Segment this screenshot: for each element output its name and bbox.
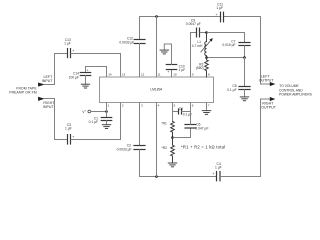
- junction: R1 R2 C6 node: [171, 136, 174, 139]
- wire: left output from top bus: [261, 17, 271, 85]
- wire: C1 to ground: [106, 121, 108, 125]
- svg-text:0.047 µF: 0.047 µF: [195, 126, 208, 130]
- input arrow: left input: [38, 83, 54, 87]
- svg-text:LM1894: LM1894: [150, 87, 162, 91]
- label LEFT INPUT: [42, 75, 54, 83]
- label LEFT OUTPUT: [259, 75, 275, 83]
- wire: C2 to bottom bus: [139, 150, 141, 177]
- svg-text:6: 6: [192, 104, 194, 108]
- variable arrow across L1: [201, 38, 213, 52]
- wire: node A over to C7: [207, 33, 245, 42]
- capacitor C9 0.0047uF: [186, 18, 201, 37]
- wire: node B bus: [207, 57, 245, 59]
- junction: V+ at pin 1: [105, 110, 108, 113]
- terminal V+: [82, 110, 106, 114]
- wire: C10 up and over to ground: [164, 44, 171, 64]
- svg-text:1 µF: 1 µF: [64, 42, 71, 46]
- junction: pin 4 on bottom bus: [155, 175, 158, 178]
- svg-text:0.015 µF: 0.015 µF: [222, 43, 235, 47]
- svg-text:0.0033 µF: 0.0033 µF: [117, 147, 132, 151]
- wire: pin 11 riser: [156, 17, 158, 78]
- svg-text:INPUT: INPUT: [42, 79, 54, 83]
- svg-text:10: 10: [173, 72, 177, 76]
- wire: pin 1 drop: [106, 103, 108, 118]
- svg-text:+: +: [85, 110, 87, 113]
- capacitor C7 0.015uF: [222, 40, 250, 48]
- wire: C3 to pin 2: [71, 103, 120, 140]
- wire: C6 to pin 6: [190, 103, 192, 125]
- svg-text:0.0047 µF: 0.0047 µF: [186, 22, 201, 26]
- wire: C14 to ground: [85, 76, 87, 85]
- IC U1 LM1894: [100, 77, 214, 103]
- junction: node A: [205, 31, 208, 34]
- wire: pin 4 drop: [156, 103, 158, 177]
- wire: node B down to C8: [244, 58, 246, 87]
- wire: pin 14 loop to C14: [86, 67, 107, 78]
- svg-text:4: 4: [158, 104, 160, 108]
- svg-text:0.1 µF: 0.1 µF: [89, 120, 98, 124]
- svg-text:INPUT: INPUT: [43, 105, 55, 109]
- svg-text:1 µF: 1 µF: [216, 6, 223, 10]
- svg-text:+: +: [167, 70, 169, 74]
- wire: pin 10 riser to C10: [171, 70, 173, 77]
- label RIGHT INPUT: [43, 101, 55, 109]
- inductor L1 4.7mH: [192, 33, 207, 58]
- svg-text:1: 1: [108, 104, 110, 108]
- svg-text:*R2: *R2: [162, 146, 168, 150]
- svg-text:0.1 µF: 0.1 µF: [227, 88, 236, 92]
- svg-text:*R1 + R2 = 1 kΩ total: *R1 + R2 = 1 kΩ total: [181, 145, 225, 150]
- svg-text:+: +: [216, 13, 218, 17]
- svg-text:3: 3: [141, 104, 143, 108]
- svg-text:5: 5: [174, 104, 176, 108]
- ground for C1: [102, 125, 110, 129]
- wire: C7 to node B bus: [244, 46, 246, 58]
- svg-text:2: 2: [122, 104, 124, 108]
- capacitor C11 1uF (top bus gap): [216, 3, 224, 22]
- wire: C12 to pin 12: [139, 43, 141, 77]
- svg-text:+: +: [72, 49, 74, 53]
- junction: pin 11 riser on top bus: [155, 15, 158, 18]
- svg-text:*R1: *R1: [161, 122, 167, 126]
- capacitor C14 100uF: [69, 69, 91, 80]
- svg-text:13: 13: [122, 72, 126, 76]
- ground for C14: [81, 84, 89, 88]
- capacitor C8 0.1uF: [227, 84, 250, 92]
- capacitor C5 0.1uF between pins 5 and 6: [173, 107, 193, 116]
- svg-text:(680): (680): [196, 66, 204, 70]
- resistor R1: [161, 121, 174, 137]
- svg-text:1 µF: 1 µF: [179, 68, 186, 72]
- capacitor C6 0.047uF: [185, 123, 208, 131]
- capacitor C12 0.0033uF: [119, 37, 145, 45]
- output arrow: right output: [270, 97, 276, 101]
- svg-text:100 µF: 100 µF: [69, 75, 79, 79]
- svg-text:0.0033 µF: 0.0033 µF: [119, 41, 134, 45]
- ground for R2: [168, 163, 176, 167]
- resistor R2: [162, 138, 175, 163]
- svg-text:11: 11: [157, 72, 160, 76]
- capacitor C3 1uF: [65, 123, 74, 144]
- wire: pin 9 riser to C9: [191, 33, 197, 78]
- resistor R3 680: [196, 58, 208, 78]
- wire: C8 to ground: [244, 90, 246, 97]
- svg-text:7: 7: [208, 104, 210, 108]
- wire: top bus: [140, 16, 261, 18]
- svg-text:+: +: [72, 135, 74, 139]
- svg-text:OUTPUT: OUTPUT: [259, 79, 275, 83]
- capacitor C1 0.1uF: [89, 116, 112, 124]
- wire: C12 branch upper: [139, 17, 141, 40]
- wire: pin 5 drop: [172, 103, 174, 122]
- svg-text:+: +: [212, 172, 214, 176]
- ground at C10: [160, 50, 168, 54]
- svg-text:C5: C5: [179, 107, 183, 111]
- capacitor C10 1uF: [166, 64, 185, 74]
- output arrow: left output: [270, 82, 276, 86]
- ground at pin 7: [202, 103, 210, 115]
- ground for C8: [240, 97, 248, 101]
- label FROM TAPE PREAMP OR FM: [9, 87, 37, 95]
- svg-text:1 µF: 1 µF: [215, 166, 222, 170]
- svg-text:8: 8: [208, 72, 210, 76]
- capacitor C13 1uF: [64, 38, 74, 57]
- wire: node over to C6: [173, 128, 191, 137]
- svg-text:4.7 mH: 4.7 mH: [192, 44, 203, 48]
- junction: node B right: [243, 56, 246, 59]
- svg-text:9: 9: [192, 72, 194, 76]
- label RIGHT OUTPUT: [261, 101, 277, 109]
- svg-text:PREAMP OR FM: PREAMP OR FM: [9, 91, 37, 95]
- wire: right input riser: [55, 99, 67, 140]
- wire: bottom bus left of C4: [140, 176, 217, 178]
- capacitor C2 0.0033uF: [117, 143, 145, 151]
- wire: bottom bus right of C4: [221, 176, 261, 178]
- svg-text:CONTROL AND: CONTROL AND: [279, 88, 303, 92]
- label TO VOLUME CONTROL AND POWER AMPLIFIERS: [279, 84, 313, 97]
- svg-text:1 µF: 1 µF: [65, 126, 72, 130]
- svg-text:OUTPUT: OUTPUT: [261, 105, 277, 109]
- svg-text:12: 12: [141, 72, 145, 76]
- wire: C13 to pin 13: [71, 54, 120, 78]
- svg-text:14: 14: [108, 72, 112, 76]
- wire: left input riser: [55, 54, 68, 85]
- wire: C9 to node A: [200, 32, 206, 34]
- junction: node B: [205, 56, 208, 59]
- wire: pin 3 drop: [139, 103, 141, 145]
- input arrow: right input: [38, 97, 54, 101]
- svg-text:POWER AMPLIFIERS: POWER AMPLIFIERS: [279, 93, 313, 97]
- wire: right output riser: [261, 99, 271, 177]
- svg-text:+: +: [87, 69, 89, 73]
- capacitor C4 1uF: [212, 162, 221, 181]
